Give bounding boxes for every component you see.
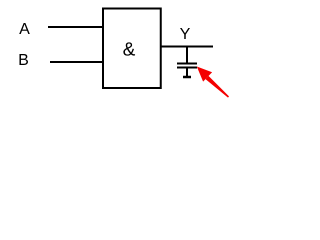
AND gate U1 body [103,9,161,89]
wire output Y [161,46,214,48]
node A label [19,23,30,34]
AND gate U1 symbol & [123,42,135,55]
wire input B [50,61,103,63]
node Y label [180,28,190,39]
node B label [19,54,28,65]
capacitor C1 top lead [186,47,188,64]
red annotation arrow shaft [206,76,230,98]
capacitor C1 bottom lead [186,68,188,77]
capacitor C1 top plate [177,63,197,65]
wire input A [48,26,103,28]
capacitor C1 bottom plate [177,67,197,69]
ground [183,76,191,79]
red annotation arrow head [197,67,212,82]
